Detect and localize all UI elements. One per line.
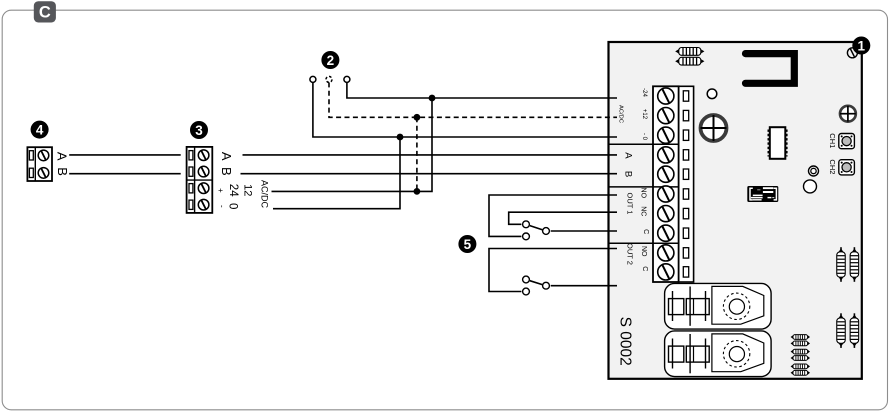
svg-text:+12: +12 bbox=[641, 109, 647, 120]
junction: 24V node bbox=[429, 95, 436, 102]
svg-text:+: + bbox=[216, 188, 225, 193]
wire: bus B terminal block 3 to board terminal B bbox=[241, 173, 618, 175]
svg-text:12: 12 bbox=[241, 184, 253, 196]
svg-text:- 0: - 0 bbox=[641, 133, 647, 141]
svg-text:C: C bbox=[642, 229, 649, 234]
screw left bbox=[701, 115, 727, 141]
callout 4 bbox=[31, 121, 49, 139]
panel label C bbox=[34, 1, 56, 22]
svg-text:B: B bbox=[219, 167, 234, 176]
screw right bbox=[840, 106, 856, 122]
svg-text:3: 3 bbox=[195, 123, 203, 138]
wire: OUT1 NC bbox=[509, 212, 617, 224]
svg-text:CH1: CH1 bbox=[828, 133, 837, 148]
svg-text:OUT 2: OUT 2 bbox=[625, 243, 634, 265]
svg-text:-: - bbox=[218, 205, 227, 208]
callout 2 bbox=[321, 51, 339, 69]
svg-text:S 0002: S 0002 bbox=[617, 317, 634, 366]
wire: OUT2 NO bbox=[489, 249, 617, 292]
svg-text:B: B bbox=[622, 171, 633, 177]
control board PCB bbox=[609, 42, 862, 379]
svg-text:NO: NO bbox=[640, 188, 647, 199]
svg-text:A: A bbox=[55, 152, 70, 161]
svg-text:B: B bbox=[55, 167, 70, 176]
resistor pair right lower bbox=[837, 313, 859, 348]
svg-text:A: A bbox=[622, 152, 633, 159]
IC U1 bbox=[769, 127, 787, 159]
resistor pair right upper bbox=[837, 247, 859, 282]
svg-text:C: C bbox=[39, 4, 51, 22]
svg-text:A: A bbox=[219, 152, 234, 161]
logo bracket bbox=[746, 54, 795, 84]
svg-text:4: 4 bbox=[36, 122, 44, 137]
junction: +12 node bbox=[414, 114, 421, 121]
terminal block 4 bbox=[27, 147, 52, 181]
svg-text:2: 2 bbox=[327, 53, 335, 68]
mounting hole middle bbox=[804, 180, 817, 193]
svg-text:AC/DC: AC/DC bbox=[259, 180, 269, 209]
wire: +12 tap riser (dashed) bbox=[416, 117, 418, 191]
resistor R-top pair on board bbox=[675, 48, 704, 66]
wire: connector 2 left pin to board -0 terminal bbox=[313, 82, 617, 137]
relay RL1 bbox=[665, 283, 772, 329]
junction: 12/24 line tap bbox=[414, 188, 421, 195]
svg-text:NC: NC bbox=[640, 206, 647, 216]
svg-text:24: 24 bbox=[227, 184, 239, 197]
relay contact OUT2 bbox=[523, 276, 550, 295]
relay contact OUT1 bbox=[523, 221, 550, 240]
resistor bank bottom bbox=[791, 335, 810, 376]
callout 1 bbox=[852, 37, 870, 55]
svg-text:-24: -24 bbox=[641, 88, 647, 97]
svg-text:NO: NO bbox=[640, 246, 647, 257]
wire: 0V supply from terminal block 3 bbox=[273, 137, 400, 209]
wire: bus A terminal block 4 to terminal block 3 bbox=[69, 154, 181, 156]
pad ring bbox=[809, 166, 819, 176]
wire: +12/24 supply from terminal block 3 bbox=[272, 98, 433, 191]
component: black module bbox=[747, 186, 778, 202]
wire: OUT1 C bbox=[551, 230, 617, 232]
svg-text:AC/DC: AC/DC bbox=[618, 105, 624, 123]
wire: bus B terminal block 4 to terminal block 3 bbox=[69, 173, 181, 175]
wire: connector 2 middle pin to board +12 terminal (dashed) bbox=[329, 82, 617, 117]
callout 5 bbox=[458, 235, 476, 253]
relay RL2 bbox=[665, 331, 772, 377]
board terminal strip bbox=[609, 86, 694, 282]
svg-text:0: 0 bbox=[227, 203, 239, 209]
svg-text:OUT 1: OUT 1 bbox=[625, 193, 634, 215]
wire: OUT1 NO bbox=[489, 195, 617, 236]
svg-text:CH2: CH2 bbox=[828, 159, 837, 174]
svg-text:1: 1 bbox=[858, 38, 866, 53]
svg-text:C: C bbox=[641, 266, 648, 271]
wire: OUT2 C bbox=[551, 285, 617, 287]
connector 2 terminals bbox=[310, 76, 350, 82]
junction: 0V node bbox=[397, 134, 404, 141]
button CH1 bbox=[839, 134, 855, 149]
terminal block 3 bbox=[187, 147, 213, 213]
svg-text:5: 5 bbox=[464, 237, 472, 252]
callout 3 bbox=[190, 121, 208, 139]
mounting hole top bbox=[707, 89, 717, 99]
corner screw bbox=[847, 48, 857, 58]
button CH2 bbox=[839, 160, 855, 175]
wire: connector 2 right pin to board -24 terminal bbox=[347, 82, 617, 98]
wire: bus A terminal block 3 to board terminal A bbox=[243, 154, 618, 156]
